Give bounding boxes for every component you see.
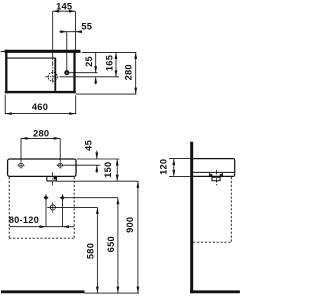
right fixing diamond — [60, 195, 65, 200]
drain crosshair vertical (centerline inside basin) — [52, 53, 54, 84]
45 dim upper leader — [96, 151, 98, 159]
280 front dim line — [21, 137, 60, 139]
svg-text:900: 900 — [125, 217, 135, 233]
wall line thin left tip — [1, 50, 5, 52]
drain outlet line extension to 580 — [47, 206, 97, 208]
80-120 arrows — [40, 225, 47, 228]
900 dim line — [137, 181, 139, 293]
basin interior bottom line — [193, 171, 234, 173]
900 arrows — [137, 181, 140, 188]
460 right extension — [75, 95, 77, 114]
basin front outline — [8, 159, 76, 176]
460 left extension — [4, 95, 6, 115]
svg-text:280: 280 — [33, 129, 49, 139]
drain channel outlet lug — [54, 177, 57, 180]
165 arrows — [115, 52, 118, 59]
drain cross tick — [212, 176, 221, 178]
back wall bar (thick) — [5, 50, 81, 53]
45 arrows — [95, 153, 98, 160]
basin outline right edge — [73, 50, 75, 94]
280 front arrows — [21, 137, 28, 140]
145/55 right extension line — [74, 11, 76, 50]
faucet vertical extension line (to 55 dim) — [66, 32, 68, 73]
svg-text:280: 280 — [123, 64, 133, 80]
145 left extension line (drain centerline up) — [52, 11, 54, 50]
120 dim line — [173, 159, 175, 177]
150 dim line — [116, 159, 118, 181]
580 arrows — [96, 207, 99, 214]
drain centerline side — [215, 170, 217, 187]
drain channel under basin — [47, 177, 56, 181]
faucet hole ring — [65, 71, 68, 74]
svg-text:650: 650 — [106, 236, 116, 252]
drain outlet circle — [50, 205, 55, 210]
45 dim lower leader — [96, 165, 98, 173]
svg-text:80-120: 80-120 — [9, 215, 39, 225]
bottom extension line to right dims — [76, 93, 137, 95]
150 arrows — [116, 159, 119, 166]
mounting zone dashed bottom — [9, 237, 74, 239]
right fixing line extension to 650 — [60, 197, 118, 199]
floor thin extension — [85, 292, 140, 294]
svg-text:55: 55 — [81, 22, 92, 32]
145 dim line — [53, 10, 76, 12]
svg-text:165: 165 — [104, 55, 114, 71]
left fixing diamond — [44, 195, 49, 200]
120 top extension — [169, 158, 190, 160]
drain recess profile — [210, 172, 223, 180]
technical dimension drawing: wall-hung washbasin, three views — [0, 0, 243, 300]
svg-text:150: 150 — [103, 162, 113, 178]
left fixing drop line — [45, 194, 47, 226]
floor line (thick) — [1, 290, 85, 293]
145 arrows — [53, 10, 60, 13]
120 arrows — [172, 159, 175, 166]
right fixing hole — [58, 163, 63, 167]
55 dim line — [60, 31, 83, 33]
drain dashed circle — [48, 72, 57, 81]
recess clamp lugs — [209, 174, 212, 177]
siphon space dashed bottom — [193, 241, 231, 243]
svg-text:120: 120 — [158, 159, 168, 175]
right fixing drop line — [62, 194, 64, 226]
basin profile outline — [193, 159, 235, 177]
165 dim line — [115, 52, 117, 77]
basin outline bottom edge — [5, 91, 76, 93]
650 arrows — [117, 198, 120, 205]
bowl inner top edge — [7, 57, 56, 59]
top edge extension to right — [77, 158, 120, 160]
svg-text:45: 45 — [84, 140, 94, 151]
25 arrows — [94, 66, 97, 73]
faucet horizontal extension line (to 25 dim) — [67, 72, 98, 74]
basin outline left edge — [5, 50, 7, 94]
55 arrows — [60, 30, 67, 33]
drain channel bottom extension line — [56, 180, 138, 182]
80-120 dim line — [9, 226, 74, 228]
580 dim line — [96, 207, 98, 293]
460 dim line — [5, 113, 76, 115]
left fixing h-tick — [44, 197, 49, 199]
holes centerline extension to 45 dim — [57, 164, 101, 166]
siphon space dashed right — [230, 177, 232, 242]
wall corner dashed drop line — [8, 177, 10, 238]
svg-text:25: 25 — [84, 56, 94, 67]
mounting zone dashed right — [73, 177, 75, 238]
280 front left extension — [20, 138, 22, 161]
120 bottom extension — [169, 175, 190, 177]
top extension line to right dims — [82, 51, 137, 53]
25 dim lower leader — [95, 77, 97, 85]
svg-text:580: 580 — [86, 243, 96, 259]
460 arrows — [5, 112, 12, 115]
280 plan dim line — [135, 52, 137, 94]
left fixing hole — [19, 163, 24, 167]
25 dim upper leader — [95, 52, 97, 72]
floor right (thick) — [190, 290, 240, 293]
650 dim line — [117, 198, 119, 293]
drain centerline front — [52, 172, 54, 186]
bowl inner right edge — [54, 58, 56, 91]
svg-text:145: 145 — [56, 1, 72, 11]
drain crosshair horizontal + extension line to right dims — [45, 76, 60, 78]
svg-text:460: 460 — [32, 102, 48, 112]
280 plan arrows — [134, 52, 137, 59]
280 front right extension — [59, 138, 61, 161]
wall (thick vertical) — [190, 142, 193, 293]
